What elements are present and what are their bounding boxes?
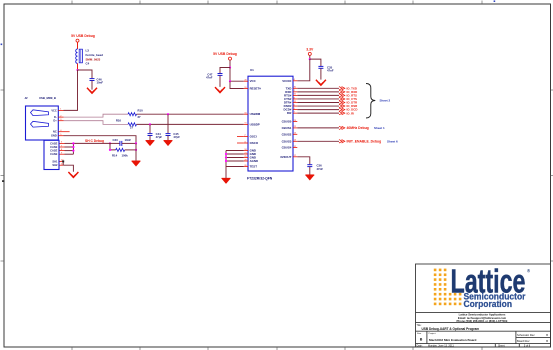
connector J2 USB_MINI_B [25, 96, 70, 140]
net IO_CTS [297, 97, 357, 101]
pin OSCO stub [237, 142, 244, 144]
svg-text:CBUS4: CBUS4 [282, 146, 292, 150]
svg-text:CBUS0: CBUS0 [282, 120, 292, 124]
net 40MHz_Debug [297, 126, 385, 130]
svg-text:CASE: CASE [50, 141, 57, 145]
junction [225, 156, 227, 158]
svg-text:L3: L3 [86, 49, 90, 53]
junction [167, 113, 169, 115]
junction [149, 123, 151, 125]
svg-text:IO_RI: IO_RI [347, 111, 355, 115]
wire [229, 60, 231, 67]
svg-text:INIT_ENABLE_Debug: INIT_ENABLE_Debug [347, 140, 382, 144]
wire [230, 81, 244, 88]
wire SH tie to ground [62, 160, 73, 171]
svg-text:Sheet: Sheet [498, 345, 505, 348]
net IO_RTS [297, 94, 357, 98]
svg-text:B: B [420, 338, 423, 342]
svg-text:GND: GND [51, 134, 57, 138]
svg-text:USBDM: USBDM [250, 112, 261, 116]
svg-text:3V3OUT: 3V3OUT [280, 155, 291, 159]
svg-text:47nF: 47nF [327, 69, 334, 73]
power symbol 5V USB Debug (input) [71, 34, 95, 42]
svg-text:AGND: AGND [250, 159, 259, 163]
pin OSCI stub [237, 135, 244, 137]
ground [146, 141, 155, 146]
net IO_RI [297, 111, 354, 115]
ground [68, 172, 78, 177]
svg-text:47nF: 47nF [317, 167, 324, 171]
svg-text:SH C Debug: SH C Debug [85, 139, 104, 143]
svg-text:MachXO2 Mini Evaluation Board: MachXO2 Mini Evaluation Board [429, 338, 477, 342]
ground [305, 175, 314, 180]
svg-text:27: 27 [138, 115, 142, 119]
svg-text:CBUS2: CBUS2 [282, 132, 292, 136]
net INIT_ENABLE_Debug [297, 140, 398, 144]
svg-text:Sheet 2: Sheet 2 [380, 98, 391, 102]
junction [229, 80, 231, 82]
wire [230, 68, 244, 82]
svg-text:Monday, June 13, 2011: Monday, June 13, 2011 [428, 345, 454, 348]
power symbol 3.3V [306, 47, 314, 55]
wire D- [64, 114, 129, 117]
wire 3V3OUT [297, 157, 310, 165]
svg-text:Corporation: Corporation [464, 299, 513, 309]
svg-text:SH2: SH2 [52, 163, 58, 167]
net IO_DTR [297, 101, 358, 105]
junction [225, 153, 227, 155]
svg-text:TEST: TEST [250, 165, 258, 169]
svg-text:CASE: CASE [50, 145, 57, 149]
svg-text:USB Debug-UART & Optional Prog: USB Debug-UART & Optional Program [422, 327, 480, 331]
junction [109, 142, 111, 144]
ground [132, 161, 141, 166]
svg-text:10nF: 10nF [97, 81, 104, 85]
ground [316, 80, 326, 85]
ferrite bead L3 [76, 49, 103, 66]
svg-text:Phone (503) 268-8001 or (800): Phone (503) 268-8001 or (800)-LATTICE [457, 319, 508, 323]
title block [416, 264, 551, 348]
svg-text:5V USB Debug: 5V USB Debug [213, 52, 237, 56]
svg-text:RI#: RI# [287, 111, 292, 115]
svg-text:R10: R10 [138, 109, 144, 113]
connector J2 shield (CASE) [44, 140, 65, 169]
svg-text:40MHz Debug: 40MHz Debug [347, 126, 369, 130]
wire [137, 123, 244, 125]
resistor R14 [110, 143, 136, 157]
svg-text:SH1: SH1 [52, 159, 58, 163]
svg-text:C33: C33 [113, 138, 119, 142]
net IO_DCD [297, 108, 357, 112]
svg-text:USB_MINI_B: USB_MINI_B [39, 96, 56, 100]
svg-text:Schematic Rev:: Schematic Rev: [517, 333, 535, 337]
svg-text:D-: D- [54, 115, 57, 119]
svg-text:3.3V: 3.3V [306, 47, 314, 51]
wire [77, 42, 79, 49]
junction [135, 149, 137, 151]
net IO_TXD [297, 86, 357, 90]
junction [72, 150, 74, 152]
svg-text:47pF: 47pF [173, 135, 180, 139]
svg-text:27: 27 [130, 126, 134, 130]
svg-text:47pF: 47pF [156, 135, 163, 139]
svg-text:Board Rev:: Board Rev: [517, 339, 530, 343]
svg-text:10nF: 10nF [125, 138, 132, 142]
capacitor C47 [206, 68, 230, 87]
ground [215, 87, 225, 92]
capacitor C46 [90, 77, 104, 89]
wire [77, 63, 79, 70]
svg-text:B: B [546, 339, 548, 343]
svg-text:D+: D+ [53, 119, 57, 123]
capacitor C36 [307, 164, 323, 175]
svg-text:100k: 100k [122, 154, 129, 158]
svg-text:B: B [546, 333, 548, 337]
svg-text:5 of 8: 5 of 8 [524, 345, 531, 348]
wire CASE bus [65, 143, 111, 154]
svg-text:Sheet 6: Sheet 6 [387, 140, 398, 144]
svg-text:J2: J2 [25, 96, 29, 100]
junction [76, 69, 78, 71]
svg-text:CASE: CASE [50, 152, 57, 156]
capacitor C33 [110, 138, 136, 146]
wire GND to shield RC [64, 136, 137, 144]
svg-text:NC: NC [53, 130, 57, 134]
svg-text:Date:: Date: [417, 345, 423, 348]
svg-text:USBDP: USBDP [250, 122, 260, 126]
resistor R10 [128, 109, 143, 119]
junction [109, 149, 111, 151]
wire [135, 143, 137, 160]
wire D+ [64, 121, 129, 125]
wire VCCIO [297, 59, 310, 81]
junction [72, 142, 74, 144]
svg-text:VCC: VCC [51, 108, 57, 112]
svg-text:U1: U1 [250, 68, 254, 72]
svg-text:VCCIO: VCCIO [282, 79, 292, 83]
ground [164, 141, 173, 146]
capacitor C45 [166, 114, 181, 140]
svg-text:R16: R16 [116, 118, 122, 122]
Lattice logo [434, 264, 531, 310]
junction [135, 142, 137, 144]
svg-text:VCC: VCC [250, 79, 257, 83]
net IO_DSR [297, 104, 358, 108]
power symbol 5V USB Debug (at U1) [213, 52, 237, 60]
wire [78, 70, 93, 78]
svg-text:OSCO: OSCO [250, 141, 259, 145]
junction [225, 160, 227, 162]
svg-text:Project:: Project: [429, 332, 437, 335]
resistor R16 [116, 118, 137, 129]
junction [72, 146, 74, 148]
junction [229, 66, 231, 68]
svg-text:C4: C4 [86, 62, 90, 66]
svg-text:CASE: CASE [50, 149, 57, 153]
brace Sheet 2 [366, 84, 391, 119]
svg-text:CBUS3: CBUS3 [282, 139, 292, 143]
svg-text:CBUS1: CBUS1 [282, 126, 292, 130]
ground [222, 178, 231, 183]
svg-text:FT232R/32-QFN: FT232R/32-QFN [247, 176, 273, 180]
svg-text:Sheet 1: Sheet 1 [374, 126, 385, 130]
svg-text:RESET#: RESET# [250, 87, 262, 91]
IC U1 FT232R [244, 68, 297, 181]
junction [309, 58, 311, 60]
wire [309, 55, 311, 59]
svg-text:OSCI: OSCI [250, 134, 257, 138]
capacitor C44 [148, 124, 163, 140]
wire [137, 113, 244, 115]
wire GND bus [226, 151, 244, 179]
svg-text:R14: R14 [112, 154, 118, 158]
svg-text:5V USB Debug: 5V USB Debug [71, 34, 95, 38]
wire VCC to USB [64, 70, 78, 110]
capacitor C35 [310, 59, 334, 80]
ground [87, 88, 97, 93]
net IO_RXD [297, 90, 357, 94]
svg-text:47nF: 47nF [206, 76, 213, 80]
